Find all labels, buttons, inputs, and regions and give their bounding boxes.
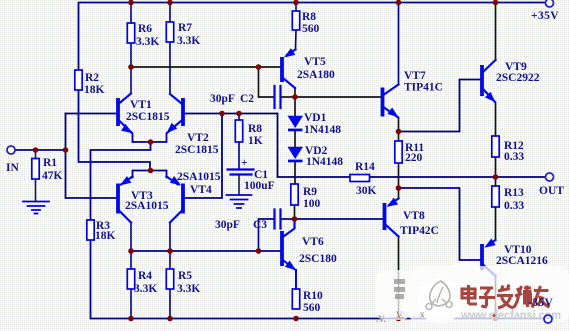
transistor VT1 2SC1815 <box>116 94 135 137</box>
diode VD2 1N4148 <box>288 147 304 163</box>
svg-text:3.3K: 3.3K <box>177 283 200 295</box>
resistor R10 <box>292 289 299 309</box>
resistor R14 <box>350 175 370 182</box>
capacitor C2 <box>275 86 281 108</box>
wire VT9 emitter to R12 <box>495 103 497 137</box>
watermark logo circle with leaf <box>418 279 463 324</box>
wire VT8 collector to bottom rail <box>398 237 400 319</box>
svg-text:R14: R14 <box>355 161 375 173</box>
svg-text:R1: R1 <box>43 157 57 169</box>
label VT2 <box>175 132 219 156</box>
svg-text:R13: R13 <box>504 187 524 199</box>
label VT7 <box>404 70 443 94</box>
svg-text:VT5: VT5 <box>304 56 326 68</box>
label R8 1K <box>248 123 263 147</box>
wire VT4 base riser <box>185 114 223 199</box>
svg-text:2SC2922: 2SC2922 <box>496 72 540 84</box>
wire VT4 collector riser <box>169 223 171 252</box>
junction node C2 tap on VT5 base line <box>256 64 262 70</box>
svg-text:R2: R2 <box>85 72 99 84</box>
label VD1 <box>304 112 341 136</box>
wire VT2 base feedback rail to OUT <box>185 114 546 178</box>
watermark white panel <box>376 261 569 322</box>
wire C2 right to VAS top node <box>282 96 295 98</box>
junction R7 top on +35V rail <box>167 0 173 5</box>
svg-text:30pF: 30pF <box>210 93 235 105</box>
transistor VT3 2SA1015 <box>116 176 132 222</box>
label R13 <box>504 187 524 212</box>
svg-text:VT2: VT2 <box>187 132 209 144</box>
wire node B to VT10 base <box>399 188 481 260</box>
watermark red text 电子发烧友 <box>462 285 550 309</box>
wire VD1 to VD2 <box>294 132 296 148</box>
label R2 <box>84 72 105 96</box>
wire PNP emitter tail <box>133 171 167 178</box>
junction VT10 collector on -35V rail <box>493 316 499 322</box>
svg-text:3.3K: 3.3K <box>134 283 157 295</box>
svg-text:R7: R7 <box>178 22 192 34</box>
capacitor C1 <box>228 170 254 175</box>
resistor R9 <box>291 184 298 205</box>
svg-text:1N4148: 1N4148 <box>306 156 343 168</box>
resistor R1 <box>32 159 39 180</box>
svg-text:VT4: VT4 <box>190 184 212 196</box>
svg-text:2SA1015: 2SA1015 <box>177 171 221 183</box>
svg-text:R9: R9 <box>303 186 317 198</box>
junction node VT4 collector / R5 <box>167 248 173 254</box>
watermark small marks <box>376 309 425 324</box>
svg-text:VT7: VT7 <box>404 70 426 82</box>
resistor R11 <box>395 141 402 163</box>
resistor R7 <box>166 22 173 42</box>
svg-text:VT1: VT1 <box>130 99 152 111</box>
svg-text:2SA180: 2SA180 <box>297 69 335 81</box>
junction node B VT8 emitter / R11 / VT10 base line <box>396 185 402 191</box>
label R11 <box>405 142 424 164</box>
svg-text:560: 560 <box>302 23 320 35</box>
capacitor C3 <box>275 210 281 229</box>
junction R6 top on +35V rail <box>128 0 134 5</box>
svg-text:18K: 18K <box>84 84 105 96</box>
svg-text:100uF: 100uF <box>244 180 275 192</box>
junction VT8 collector on -35V rail <box>396 316 402 322</box>
junction node VT1 collector / R6 / VT5 base <box>128 64 134 70</box>
junction VT4 base riser on VT2 base line <box>219 111 225 117</box>
junction node IN / VT1 base / VT3 base <box>63 147 69 153</box>
terminal +35V <box>546 0 554 7</box>
svg-text:R10: R10 <box>303 290 323 302</box>
svg-text:V.: V. <box>396 310 404 320</box>
wire +35V top rail with R2 riser <box>79 3 545 71</box>
transistor VT8 TIP42C <box>383 198 399 237</box>
svg-text:IN: IN <box>6 162 19 174</box>
label R4 <box>134 270 157 295</box>
svg-text:100: 100 <box>303 198 321 210</box>
wire C2 left riser <box>259 67 274 97</box>
svg-text:18K: 18K <box>95 230 116 242</box>
wire VT6 base line <box>131 250 280 252</box>
wire R13 stubs <box>495 177 497 240</box>
wire VT8 emitter stub <box>398 188 400 199</box>
label R9 <box>303 186 321 210</box>
wire IN riser to VT3 base <box>66 114 117 199</box>
junction R4 bottom on -35V rail <box>128 316 134 322</box>
label C1 <box>241 157 275 192</box>
svg-text:0.33: 0.33 <box>504 200 524 212</box>
svg-text:VT6: VT6 <box>302 236 324 248</box>
label VT4 <box>177 171 221 196</box>
label R12 <box>504 140 524 163</box>
wire C1 to ground <box>238 176 240 195</box>
wire R6 top stub <box>130 3 132 24</box>
wire R4 stubs <box>130 251 132 319</box>
junction VT9 collector on +35V rail <box>493 0 499 5</box>
junction R8 560 top on +35V rail <box>293 0 299 5</box>
label R10 <box>303 290 323 314</box>
label VT8 <box>400 210 439 237</box>
wire R8 1K stubs <box>238 114 240 169</box>
transistor VT7 TIP41C <box>381 85 401 121</box>
junction R5 bottom on -35V rail <box>167 316 173 322</box>
svg-text:TIP42C: TIP42C <box>400 225 439 237</box>
wire VT5 base line from node at R6 bottom <box>131 66 280 68</box>
junction R1 top on IN line <box>33 147 39 153</box>
svg-text:R5: R5 <box>178 270 192 282</box>
svg-text:.V.: .V. <box>376 314 386 324</box>
WATERMARK <box>376 261 569 324</box>
wire R11 bottom to node B <box>398 163 400 188</box>
wire bias chain VT5 collector to VD1 <box>294 88 296 116</box>
wire node A to VT9 base <box>399 80 481 132</box>
svg-text:3.3K: 3.3K <box>177 35 200 47</box>
svg-text:C2: C2 <box>240 93 254 105</box>
transistor VT5 2SA180 <box>280 48 295 88</box>
transistor VT9 2SC2922 <box>480 60 498 105</box>
svg-text:3.3K: 3.3K <box>136 36 159 48</box>
label VD2 <box>305 145 343 168</box>
label VT3 <box>125 190 169 212</box>
label R3 <box>95 220 116 242</box>
svg-text:0.33: 0.33 <box>504 151 524 163</box>
junction R10 bottom on -35V rail <box>293 316 299 322</box>
wire IN terminal lead <box>15 149 66 151</box>
svg-text:30K: 30K <box>356 185 377 197</box>
wire R5 stubs <box>169 251 171 319</box>
wire VT1 base <box>66 113 117 115</box>
wire R9 bottom to VAS node <box>294 205 296 219</box>
resistor R6 <box>127 23 134 43</box>
wire VT3 collector riser <box>130 223 132 252</box>
wire VT9 collector riser <box>495 3 497 60</box>
junction node VAS: VT6 collector / C3 / R9 / VT8 base <box>292 216 298 222</box>
wire R12 bottom to OUT node <box>495 157 497 177</box>
junction VT7 collector on +35V rail <box>396 0 402 5</box>
svg-text:OUT: OUT <box>539 185 564 197</box>
svg-text:+35V: +35V <box>531 10 559 22</box>
transistor VT4 2SA1015 <box>167 176 185 222</box>
resistor R4 <box>127 269 134 289</box>
junction node OUT R12 / R13 <box>493 174 499 180</box>
wire R7 bottom to VT2 collector riser <box>169 42 171 93</box>
svg-text:TIP41C: TIP41C <box>404 82 443 94</box>
label R6 <box>136 23 159 48</box>
junction node VT5 collector / C2 / VD1 / VT7 base <box>292 94 298 100</box>
transistor VT10 2SCA1216 <box>480 238 496 276</box>
wire VD2 to R9 <box>294 163 296 185</box>
wire VT10 collector to bottom rail <box>495 276 497 319</box>
svg-text:220: 220 <box>405 152 423 164</box>
label VT10 <box>496 244 548 267</box>
terminal -35V <box>544 315 552 323</box>
resistor R13 <box>492 186 499 207</box>
wire R1 stubs <box>35 150 37 202</box>
svg-text:+: + <box>241 157 248 169</box>
svg-text:2SC180: 2SC180 <box>299 253 337 265</box>
transistor VT2 2SC1815 <box>164 94 185 136</box>
svg-text:2SC1815: 2SC1815 <box>175 144 219 156</box>
resistor R8 1K <box>235 120 242 142</box>
label R8 560 <box>302 11 320 35</box>
wire R6 bottom to VT1 collector riser <box>130 43 132 93</box>
svg-text:2SCA1216: 2SCA1216 <box>496 255 548 267</box>
transistor VT6 2SC180 <box>280 219 298 289</box>
label R14 <box>355 161 377 197</box>
wire R7 top stub <box>169 3 171 23</box>
label R7 <box>177 22 200 47</box>
junction node NPN tail VT1-VT2 emitters / R3 <box>148 139 154 145</box>
resistor R12 <box>492 136 499 157</box>
svg-text:VD1: VD1 <box>304 112 327 124</box>
svg-text:C3: C3 <box>253 219 267 231</box>
junction node A VT7 emitter / R11 / VT9 base <box>396 129 402 135</box>
wire NPN emitter tail <box>133 134 167 143</box>
svg-text:x: x <box>420 309 425 319</box>
wire VT8 base <box>295 218 383 220</box>
svg-text:R4: R4 <box>138 270 152 282</box>
svg-text:2SC1815: 2SC1815 <box>126 111 170 123</box>
svg-text:2SA1015: 2SA1015 <box>125 200 169 212</box>
ground (C1) <box>227 195 252 208</box>
watermark grey fragments <box>394 279 405 299</box>
terminal IN <box>7 146 15 154</box>
label VT5 <box>297 56 335 81</box>
label VT1 <box>126 99 170 123</box>
label VT9 <box>496 61 540 84</box>
wire R2 bottom to PNP tail <box>79 90 151 171</box>
wire VT7 collector riser <box>398 3 400 85</box>
wire R8 560 stubs <box>295 3 298 50</box>
svg-text:47K: 47K <box>42 170 63 182</box>
svg-text:R8: R8 <box>302 11 316 23</box>
wire R3 bottom and -35V bottom rail <box>91 240 545 319</box>
svg-text:1N4148: 1N4148 <box>304 124 341 136</box>
svg-text:30pF: 30pF <box>215 219 240 231</box>
junction C3 tap on VT6 base line <box>256 248 262 254</box>
svg-text:VT8: VT8 <box>403 210 425 222</box>
label R1 <box>42 157 63 182</box>
junction node PNP tail VT3-VT4 emitters / R2 <box>148 168 154 174</box>
label R5 <box>177 270 200 295</box>
resistor R8 560 <box>292 11 299 30</box>
label C3 <box>215 219 267 231</box>
resistor R2 <box>75 70 82 90</box>
svg-text:R6: R6 <box>138 23 152 35</box>
svg-text:R8: R8 <box>248 123 262 135</box>
wire VT7 base <box>295 96 380 98</box>
wire C3 left riser <box>259 219 274 251</box>
wire VT7 emitter to node A <box>398 118 400 142</box>
junction R8 1K top on VT2 base line <box>236 111 242 117</box>
diode VD1 1N4148 <box>288 116 304 132</box>
wire R3 top to NPN tail <box>91 142 151 220</box>
terminal OUT <box>546 173 554 181</box>
resistor R5 <box>166 269 173 289</box>
junction node VT3 collector / R4 <box>128 248 134 254</box>
svg-text:1K: 1K <box>248 135 263 147</box>
label VT6 <box>299 236 337 265</box>
wire C3 right to VAS node <box>282 218 295 220</box>
resistor R3 <box>87 220 94 240</box>
svg-text:560: 560 <box>303 302 321 314</box>
label C2 <box>210 93 254 105</box>
ground (R1) <box>23 202 49 214</box>
